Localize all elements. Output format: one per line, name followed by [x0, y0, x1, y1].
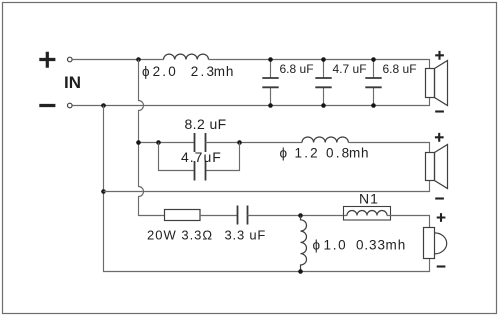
capacitor C5 4.7uF plates — [195, 161, 206, 181]
wire: mid return rail — [104, 181, 430, 192]
wire: top + rail from IN+ to inductor L1 — [72, 59, 163, 61]
node: mid rail at + bus — [136, 140, 141, 145]
node: shunt L3 top — [298, 213, 303, 218]
capacitor C3 6.8uF shunt — [365, 60, 381, 106]
wire: mid rail from + bus to C4 — [139, 142, 195, 144]
node: shunt L3 bottom — [298, 269, 303, 274]
SP1 - mark — [435, 110, 444, 112]
SP3 + mark — [437, 213, 446, 222]
svg-text:IN: IN — [64, 73, 81, 92]
node: - rail tap — [101, 103, 106, 108]
node C2 bottom — [321, 103, 326, 108]
SP1 + mark — [435, 51, 444, 60]
wire: R1 to C6 — [200, 215, 238, 217]
svg-text:N1: N1 — [359, 191, 379, 207]
speaker SP1 body — [426, 69, 435, 98]
wire: mid rail from C4 to L2 — [206, 142, 303, 144]
IN - polarity mark — [39, 104, 55, 107]
SP2 - mark — [435, 197, 444, 199]
capacitor C2 4.7uF shunt — [315, 60, 331, 106]
capacitor C4 8.2uF plates — [195, 133, 206, 152]
inductor N1 coil — [347, 211, 387, 216]
svg-text:4.7uF: 4.7uF — [181, 149, 222, 165]
speaker SP1 cone — [435, 61, 448, 106]
speaker SP3 dome — [435, 233, 447, 254]
capacitor C1 6.8uF shunt — [262, 60, 278, 106]
node C3 bottom — [371, 103, 376, 108]
wire: top + rail from L1 to speaker SP1 — [209, 60, 430, 69]
node C3 top — [371, 57, 376, 62]
svg-text:3.3 uF: 3.3 uF — [225, 228, 267, 243]
node C2 top — [321, 57, 326, 62]
svg-text:8.2 uF: 8.2 uF — [185, 116, 227, 132]
wire: C6 to N1 — [248, 215, 348, 217]
wire: + bus vertical with hops — [139, 60, 165, 216]
svg-text:6.8 uF: 6.8 uF — [383, 62, 417, 76]
svg-text:ϕ1.00.33mh: ϕ1.00.33mh — [313, 238, 407, 253]
speaker SP3 body — [424, 228, 435, 259]
inductor L2 coil — [302, 137, 348, 143]
inductor N1 box — [344, 207, 391, 221]
node: + rail tap — [136, 57, 141, 62]
speaker SP2 body — [426, 153, 435, 181]
SP2 + mark — [435, 133, 444, 142]
wire: parallel branch loop — [159, 143, 240, 171]
IN + terminal — [68, 57, 73, 62]
node: parallel branch left — [156, 140, 161, 145]
IN + polarity mark — [39, 52, 55, 68]
resistor R1 20W 3.3ohm — [165, 210, 201, 221]
IN - terminal — [68, 103, 73, 108]
capacitor C6 3.3uF plates — [238, 206, 248, 225]
svg-text:20W 3.3Ω: 20W 3.3Ω — [147, 228, 213, 243]
svg-text:4.7 uF: 4.7 uF — [333, 62, 367, 76]
inductor L1 coil — [164, 54, 209, 59]
svg-text:6.8 uF: 6.8 uF — [280, 62, 314, 76]
node: parallel branch right — [237, 140, 242, 145]
svg-text:ϕ2.02.3mh: ϕ2.02.3mh — [142, 64, 234, 79]
wire: top - rail from IN- to speaker SP1 — [72, 98, 429, 106]
speaker SP2 cone — [435, 145, 448, 189]
node C1 bottom — [268, 103, 273, 108]
node C1 top — [268, 57, 273, 62]
node: - bus mid tap — [101, 189, 106, 194]
wire: - bus vertical and bottom rail — [104, 106, 430, 272]
wire: mid rail from L2 to speaker SP2 — [348, 143, 429, 153]
wire: N1 to speaker SP3 — [387, 216, 430, 228]
inductor L3 shunt coil — [301, 216, 307, 272]
SP3 - mark — [437, 265, 446, 267]
svg-text:ϕ1.20.8mh: ϕ1.20.8mh — [280, 146, 370, 161]
